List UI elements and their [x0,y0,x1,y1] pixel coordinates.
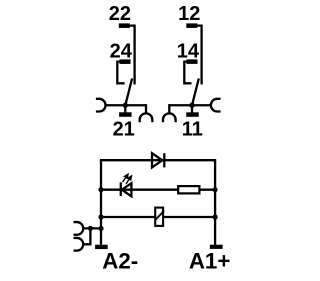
svg-text:A1+: A1+ [189,249,231,274]
svg-text:12: 12 [178,3,200,25]
svg-text:24: 24 [110,41,133,63]
svg-text:14: 14 [177,41,200,63]
svg-text:22: 22 [109,3,131,25]
svg-text:A2-: A2- [102,249,138,274]
svg-text:21: 21 [113,119,135,141]
svg-text:11: 11 [182,119,203,141]
